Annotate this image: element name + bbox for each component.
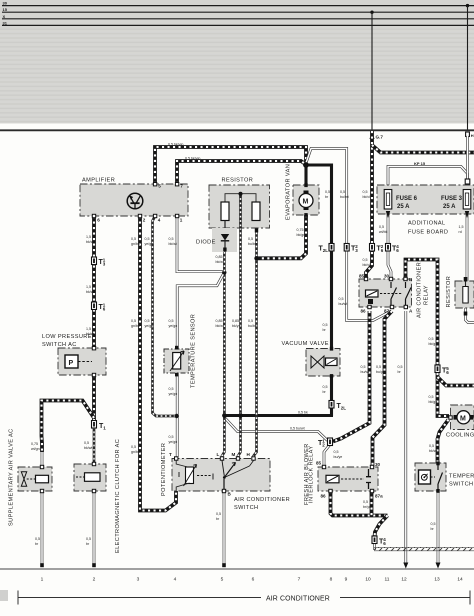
wire amplifier pin 4 to sensor junction (153, 216, 177, 416)
svg-text:0,5: 0,5 (361, 365, 366, 369)
svg-text:H: H (471, 133, 474, 138)
svg-text:0,5: 0,5 (339, 297, 344, 301)
svg-text:0,5: 0,5 (86, 537, 91, 541)
wire relay 86 down to T21 (333, 311, 370, 442)
svg-text:0,5: 0,5 (323, 323, 328, 327)
wire KP 15 (388, 167, 468, 186)
svg-text:0,5: 0,5 (169, 237, 174, 241)
svg-text:br: br (431, 527, 435, 531)
svg-text:13: 13 (434, 577, 440, 583)
svg-text:AIR CONDITIONER: AIR CONDITIONER (266, 596, 330, 603)
svg-text:4: 4 (158, 218, 161, 223)
terminal track 2 (92, 563, 96, 567)
wire G7 branch right (372, 145, 474, 153)
fresh air blower interlock relay K2 (304, 443, 383, 505)
wire interlock 86 ground (331, 491, 388, 516)
svg-text:8: 8 (330, 577, 333, 583)
svg-text:T2L: T2L (337, 403, 347, 411)
svg-text:bk/wt: bk/wt (86, 290, 94, 294)
wire T2l to vacuum valve (330, 250, 333, 349)
svg-text:bu/wt: bu/wt (361, 370, 370, 374)
terminal track 1 (40, 563, 44, 567)
svg-text:0,75: 0,75 (31, 442, 38, 446)
wire low pressure switch through (92, 349, 96, 375)
svg-text:bk/wt: bk/wt (216, 324, 224, 328)
svg-text:86: 86 (321, 494, 327, 499)
svg-text:5: 5 (158, 184, 161, 189)
vacuum valve Y1 (282, 341, 341, 378)
wire L junction to switch L (222, 416, 224, 460)
svg-text:0,5: 0,5 (131, 445, 136, 449)
svg-text:1,5: 1,5 (86, 235, 91, 239)
junction dot H node (254, 256, 258, 260)
svg-text:ye/gn: ye/gn (169, 392, 178, 396)
potentiometer and AC switch assembly (161, 443, 290, 511)
svg-text:11: 11 (385, 577, 390, 583)
wire resistor right leg to H junction striped (254, 228, 257, 459)
svg-text:0,5: 0,5 (363, 500, 368, 504)
supplementary air valve Y2 (9, 428, 53, 526)
svg-text:2: 2 (93, 577, 96, 583)
wire interlock 87a ground (372, 491, 388, 537)
svg-text:0,5: 0,5 (35, 537, 40, 541)
bottom bracket (18, 597, 261, 599)
terminal track 13 (436, 563, 441, 569)
track baseline (0, 568, 474, 570)
svg-text:0,5: 0,5 (145, 319, 150, 323)
svg-text:bk/wt: bk/wt (429, 449, 437, 453)
svg-text:M: M (303, 199, 309, 206)
resistor R3 right (446, 276, 474, 316)
svg-text:0,5: 0,5 (363, 190, 368, 194)
svg-text:87: 87 (384, 309, 390, 314)
connector T1 (92, 421, 107, 431)
wire node to evaporator van + (304, 161, 307, 186)
connector T65 (435, 365, 449, 375)
svg-text:wt/gn: wt/gn (31, 447, 40, 451)
connector T2l upper (319, 244, 335, 254)
svg-text:bk/wt: bk/wt (169, 242, 177, 246)
junction dot sensor node (175, 414, 179, 418)
svg-text:br: br (398, 370, 402, 374)
connector T64 ground (372, 536, 386, 546)
wire diode node to temperature sensor (177, 272, 224, 348)
svg-text:B: B (409, 277, 413, 282)
svg-text:0,5: 0,5 (248, 237, 253, 241)
wire amplifier pin 5 to evaporator node (155, 147, 306, 184)
svg-text:VACUUM VALVE: VACUUM VALVE (282, 341, 329, 347)
wire node to vacuum valve feed (306, 165, 332, 250)
wire temperature switch to track 13 (437, 491, 440, 563)
svg-text:A: A (409, 309, 413, 314)
wire resistor centre to M junction striped (239, 228, 242, 416)
terminal track 5 (222, 563, 226, 567)
wire G7 drop through band (371, 12, 373, 131)
svg-text:gn/bk: gn/bk (131, 242, 140, 246)
ground rail hatched (374, 546, 474, 548)
junction dot M node (238, 413, 243, 418)
wire diode node down to L junction striped (223, 272, 226, 415)
wire switch to T1 (92, 375, 96, 421)
wire G7 hatched vertical to relay pin 85 (366, 131, 372, 280)
wire amplifier pin 2 to potentiometer bottom (140, 216, 176, 511)
svg-text:0,5: 0,5 (84, 441, 89, 445)
svg-text:T1: T1 (99, 423, 106, 431)
svg-text:br: br (216, 517, 220, 521)
svg-text:0,5: 0,5 (169, 319, 174, 323)
node H label (466, 132, 470, 137)
wire T22 down to relay pin 87 (347, 252, 390, 321)
svg-text:bk/wt: bk/wt (86, 240, 94, 244)
wire temperature sensor to potentiometer T (176, 375, 179, 457)
resistor unit R1 (209, 178, 270, 235)
svg-text:br: br (35, 542, 39, 546)
svg-text:AIR CONDITIONER: AIR CONDITIONER (417, 262, 423, 318)
svg-text:gn/bk: gn/bk (131, 450, 140, 454)
svg-text:25 A: 25 A (397, 204, 410, 210)
svg-text:1,5: 1,5 (459, 225, 464, 229)
svg-text:bk/gn: bk/gn (429, 342, 438, 346)
junction dot evaporator node (303, 162, 309, 168)
wire right drop through band (467, 6, 469, 131)
connector T21 (318, 438, 333, 448)
svg-text:bu/wt: bu/wt (339, 302, 348, 306)
svg-text:15: 15 (3, 7, 8, 12)
svg-text:0,5: 0,5 (379, 225, 384, 229)
connector T31 (92, 257, 106, 267)
electromagnetic clutch Y3 (74, 439, 121, 553)
svg-text:br/ye: br/ye (363, 505, 371, 509)
node on bus 30 feeding fuse 3 (466, 4, 469, 7)
svg-text:6: 6 (97, 218, 100, 223)
svg-text:bk/vi: bk/vi (363, 195, 371, 199)
bus line 31 (2, 24, 474, 26)
svg-text:LOW PRESSURE: LOW PRESSURE (42, 334, 92, 340)
svg-text:AMPLIFIER: AMPLIFIER (82, 178, 115, 184)
svg-text:9: 9 (345, 577, 348, 583)
svg-text:SWITCH AC: SWITCH AC (42, 342, 77, 348)
svg-text:RESISTOR: RESISTOR (222, 178, 254, 184)
wire branch to supplementary air valve (42, 401, 95, 453)
svg-text:SWITCH: SWITCH (449, 482, 473, 488)
svg-text:0,75: 0,75 (297, 228, 304, 232)
svg-text:bu/ye: bu/ye (376, 370, 385, 374)
wire evaporator minus to H junction (257, 215, 307, 258)
svg-text:1: 1 (41, 577, 44, 583)
svg-text:bk/vi: bk/vi (363, 263, 371, 267)
svg-text:T: T (169, 452, 172, 457)
svg-text:T2L: T2L (319, 246, 329, 254)
wire branch to right edge (438, 377, 474, 386)
amplifier U1 (80, 178, 188, 223)
svg-text:0,5: 0,5 (131, 319, 136, 323)
svg-text:5: 5 (221, 577, 224, 583)
svg-text:T13: T13 (99, 258, 106, 267)
wire amplifier pin 7 to evaporator node (177, 161, 306, 184)
svg-text:0,5: 0,5 (398, 365, 403, 369)
wire node to T22 white (306, 149, 347, 253)
svg-text:ye/gn: ye/gn (169, 440, 178, 444)
svg-text:M: M (460, 415, 466, 422)
svg-text:T46: T46 (379, 537, 386, 546)
connector T61 (92, 302, 106, 312)
junction dot L node (222, 413, 227, 418)
svg-text:0,5: 0,5 (323, 385, 328, 389)
wire M junction to switch M (238, 416, 241, 460)
svg-text:wt/bk: wt/bk (379, 230, 388, 234)
track numbers (41, 577, 463, 583)
svg-text:T56: T56 (442, 366, 449, 375)
svg-text:B: B (228, 492, 232, 497)
svg-text:ye/gn: ye/gn (169, 324, 178, 328)
terminal track 12 (403, 563, 408, 569)
svg-text:rd: rd (459, 230, 462, 234)
svg-text:bk/gn: bk/gn (297, 233, 306, 237)
svg-text:87a: 87a (375, 494, 383, 499)
svg-text:RELAY: RELAY (424, 285, 430, 305)
wire valve to track 1 (41, 491, 44, 565)
wire switch B to track 5 (223, 491, 226, 565)
svg-text:ye/gn: ye/gn (145, 324, 154, 328)
svg-text:POTENTIOMETER: POTENTIOMETER (161, 443, 167, 496)
svg-text:1,5: 1,5 (86, 285, 91, 289)
svg-text:0,5: 0,5 (248, 319, 253, 323)
wire relay B to cooling fan hatched (406, 260, 450, 417)
svg-text:0,5: 0,5 (334, 450, 339, 454)
scan band background (0, 0, 474, 124)
svg-text:bk/gn: bk/gn (429, 400, 438, 404)
svg-text:INTERLOCK RELAY: INTERLOCK RELAY (309, 446, 315, 504)
svg-text:4: 4 (174, 577, 177, 583)
svg-text:FUSE 3: FUSE 3 (441, 196, 463, 202)
svg-text:0,5: 0,5 (169, 387, 174, 391)
svg-text:H: H (247, 452, 251, 457)
junction dot diode node (222, 270, 226, 274)
svg-text:br: br (323, 390, 327, 394)
svg-text:ye/gn: ye/gn (145, 242, 154, 246)
svg-text:SUPPLEMENTARY AIR VALVE AC: SUPPLEMENTARY AIR VALVE AC (9, 428, 15, 526)
svg-text:0,5: 0,5 (363, 258, 368, 262)
svg-text:br: br (325, 195, 329, 199)
svg-text:0,5: 0,5 (376, 365, 381, 369)
svg-text:7: 7 (298, 577, 301, 583)
bus line 30 (2, 5, 474, 7)
svg-text:10: 10 (365, 577, 371, 583)
svg-text:FUSE 6: FUSE 6 (396, 196, 418, 202)
svg-text:0,5: 0,5 (429, 395, 434, 399)
wire branch to fan motor (438, 420, 449, 464)
svg-text:0,5 bk/vio: 0,5 bk/vio (185, 157, 200, 161)
svg-text:30: 30 (375, 462, 381, 467)
bus line X (2, 18, 474, 20)
svg-text:T46: T46 (392, 244, 399, 253)
svg-text:2: 2 (143, 218, 146, 223)
svg-text:DIODE: DIODE (196, 240, 216, 246)
svg-text:KP 15: KP 15 (414, 161, 426, 166)
svg-text:P: P (69, 360, 74, 367)
svg-text:FUSE BOARD: FUSE BOARD (408, 230, 448, 236)
connector below band drop (465, 179, 470, 184)
svg-text:TEMPERATURE SENSOR: TEMPERATURE SENSOR (191, 314, 197, 388)
temperature switch S2 (415, 462, 474, 493)
svg-text:0,85: 0,85 (216, 255, 223, 259)
svg-text:0,85: 0,85 (232, 319, 239, 323)
svg-text:bu/bk: bu/bk (248, 324, 257, 328)
evaporator van M1 (286, 164, 320, 220)
wire relay 87 to interlock relay 30 (373, 311, 393, 467)
svg-text:COOLING FAN: COOLING FAN (446, 433, 474, 439)
svg-text:86: 86 (361, 309, 367, 314)
svg-text:ELECTROMAGNETIC CLUTCH FOR AC: ELECTROMAGNETIC CLUTCH FOR AC (115, 439, 121, 553)
svg-text:85: 85 (359, 274, 365, 279)
wire thick black bus to L junction (225, 414, 334, 417)
svg-text:br: br (323, 328, 327, 332)
svg-text:7: 7 (180, 184, 183, 189)
bus line 15 (2, 11, 474, 13)
wire fuse 6 to T64 (388, 212, 391, 280)
svg-text:0,85: 0,85 (216, 319, 223, 323)
wire valve feed lower (41, 452, 44, 468)
svg-text:0,5: 0,5 (340, 190, 345, 194)
svg-text:1: 1 (180, 218, 183, 223)
svg-text:0,5 bk/vio: 0,5 bk/vio (168, 143, 183, 147)
svg-text:12: 12 (401, 577, 407, 583)
svg-text:25 A: 25 A (443, 204, 456, 210)
wire amplifier pin 6 main striped (92, 216, 96, 349)
wire T21 to interlock relay 85 (324, 445, 330, 468)
connector T22 (344, 244, 358, 254)
temperature sensor R2 (164, 314, 197, 388)
svg-text:bu/wt: bu/wt (340, 195, 349, 199)
svg-text:T26: T26 (377, 244, 384, 253)
diode D1 (196, 228, 237, 272)
wire resistor bottom stub (466, 303, 474, 323)
svg-text:0,5: 0,5 (431, 522, 436, 526)
svg-text:0,5 bu/wt: 0,5 bu/wt (290, 427, 305, 431)
band bottom edge (0, 129, 474, 131)
svg-text:1,5: 1,5 (86, 327, 91, 331)
svg-text:6: 6 (252, 577, 255, 583)
svg-text:0,5: 0,5 (145, 237, 150, 241)
low pressure switch S1 (42, 334, 106, 377)
fuse F6 (384, 190, 392, 210)
wire T64 to ground rail (373, 542, 376, 550)
svg-text:EVAPORATOR VAN: EVAPORATOR VAN (286, 164, 292, 220)
svg-text:0,5: 0,5 (169, 435, 174, 439)
svg-text:0,5: 0,5 (429, 337, 434, 341)
svg-text:0,5: 0,5 (131, 237, 136, 241)
svg-text:RESISTOR: RESISTOR (446, 276, 452, 308)
wire T1 to clutch striped (93, 427, 96, 465)
wire amplifier pin 1 to diode node (177, 216, 224, 272)
svg-text:T16: T16 (99, 303, 106, 312)
wire L junction to T21 white (225, 418, 328, 441)
wire clutch to track 2 (93, 491, 96, 565)
additional fuse board (377, 161, 474, 236)
cooling fan M2 (446, 405, 474, 439)
svg-text:bu/bk: bu/bk (248, 242, 257, 246)
svg-text:30: 30 (384, 274, 390, 279)
svg-text:bk/ye: bk/ye (232, 324, 241, 328)
svg-text:ADDITIONAL: ADDITIONAL (408, 221, 446, 227)
svg-text:G.7: G.7 (376, 135, 384, 140)
svg-text:0,5 bk: 0,5 bk (298, 411, 308, 415)
svg-text:14: 14 (457, 577, 463, 583)
svg-text:SWITCH: SWITCH (234, 505, 258, 511)
svg-text:AIR CONDITIONER: AIR CONDITIONER (234, 497, 290, 503)
connector T64 fuse wire (386, 244, 400, 254)
svg-text:31: 31 (3, 20, 8, 25)
node on bus 15 feeding G7 (370, 11, 373, 14)
svg-text:bu/ye: bu/ye (334, 455, 343, 459)
svg-text:gn/bk: gn/bk (131, 324, 140, 328)
svg-text:0,5: 0,5 (216, 512, 221, 516)
wire fuse 3 to resistor (466, 209, 469, 282)
svg-text:0,5: 0,5 (325, 190, 330, 194)
svg-text:bk/wt: bk/wt (86, 332, 94, 336)
svg-text:30: 30 (3, 1, 8, 6)
svg-text:M: M (232, 452, 236, 457)
svg-text:3: 3 (137, 577, 140, 583)
svg-text:T23: T23 (351, 244, 358, 253)
wire band drop to fuse 3 (466, 136, 469, 190)
svg-text:bk/wt: bk/wt (216, 260, 224, 264)
svg-text:T12: T12 (318, 439, 325, 448)
svg-text:L: L (217, 452, 220, 457)
connector T2L lower (329, 401, 346, 411)
svg-text:X: X (3, 14, 6, 19)
wire relay A to track 12 (404, 311, 407, 563)
svg-text:85: 85 (316, 461, 322, 466)
svg-text:br: br (86, 542, 90, 546)
air conditioner relay K1 (359, 262, 430, 318)
connector T62 (370, 244, 384, 254)
svg-text:0,5: 0,5 (429, 444, 434, 448)
svg-text:TEMPERATURE: TEMPERATURE (449, 474, 474, 480)
svg-text:bk/wt: bk/wt (84, 446, 92, 450)
wire vacuum valve to T2L (330, 376, 333, 416)
